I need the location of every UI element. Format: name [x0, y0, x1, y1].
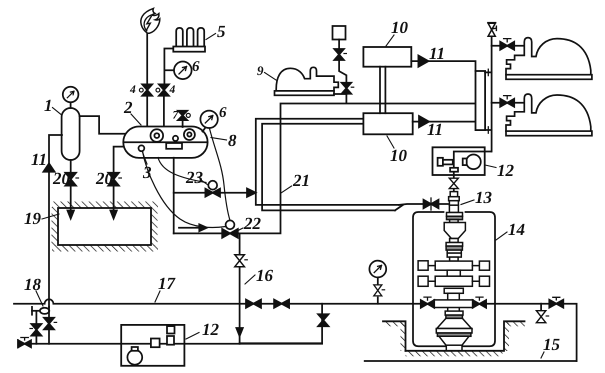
- separator float 3: [139, 145, 145, 151]
- gauge on line 17: [377, 298, 379, 304]
- svg-text:23: 23: [185, 168, 204, 187]
- svg-text:21: 21: [292, 171, 310, 190]
- label 3 + leader: [143, 152, 148, 165]
- wire flare riser: [146, 33, 148, 128]
- wellhead side valves: [421, 300, 434, 308]
- ground right: [504, 321, 525, 351]
- valve 13 line: [399, 203, 448, 206]
- separator port big 2: [184, 129, 195, 140]
- burner 5: [176, 28, 183, 47]
- boxes 10: [363, 47, 411, 67]
- valve 20b: [108, 173, 119, 186]
- pump unit 12 left: [121, 325, 184, 366]
- control curve C: [210, 129, 231, 221]
- line 15: [365, 360, 577, 362]
- arrow 11 top: [411, 61, 475, 71]
- svg-text:5: 5: [217, 22, 226, 41]
- svg-text:20: 20: [95, 169, 114, 188]
- enclosure 14: [413, 212, 495, 346]
- wire oval drop x=49: [48, 307, 50, 344]
- svg-text:11: 11: [427, 120, 443, 139]
- ground hatching left: [383, 321, 406, 351]
- svg-text:11: 11: [31, 150, 47, 169]
- wire valve23 run: [174, 192, 247, 194]
- svg-text:15: 15: [543, 335, 561, 354]
- valve 22: [226, 220, 235, 229]
- svg-text:14: 14: [508, 220, 525, 239]
- discharge line right: [485, 304, 577, 361]
- svg-text:11: 11: [429, 44, 445, 63]
- tank 19: [58, 208, 151, 245]
- svg-text:8: 8: [228, 131, 237, 150]
- truck feed valve top: [492, 45, 525, 47]
- valve 18b: [44, 318, 54, 330]
- svg-text:19: 19: [24, 209, 42, 228]
- svg-text:6: 6: [219, 105, 227, 121]
- truck right top: [506, 38, 592, 80]
- bottom line left: [31, 343, 322, 345]
- cellar floor: [406, 350, 503, 352]
- valve 4 left: [142, 84, 152, 95]
- wire vessel1 left drop (line 11): [49, 135, 62, 308]
- svg-text:10: 10: [391, 18, 409, 37]
- svg-text:9: 9: [257, 63, 264, 78]
- svg-text:17: 17: [158, 274, 177, 293]
- svg-text:13: 13: [475, 188, 493, 207]
- hanging open valve: [540, 304, 542, 310]
- gauge 6a: [174, 62, 192, 80]
- svg-text:18: 18: [24, 275, 42, 294]
- wire left drop x=36.4: [35, 311, 37, 344]
- gauge on vessel 1: [70, 102, 72, 108]
- valve 18a: [31, 324, 41, 336]
- wire line to burner 5 and gauge: [164, 49, 174, 129]
- wire unit12 down: [453, 175, 455, 196]
- manifold: [491, 23, 493, 152]
- tank 19 hatch: [52, 202, 158, 208]
- valve 4 right: [159, 84, 169, 95]
- branch x=322 with valve: [240, 304, 323, 344]
- wire vessel2 left bottom to valve 20b: [114, 147, 127, 218]
- valve 7 on vessel2: [182, 120, 184, 128]
- valve t1: [334, 49, 344, 60]
- loop 21 double line: [256, 119, 399, 205]
- svg-text:3: 3: [142, 163, 152, 182]
- truck 9: [276, 67, 338, 91]
- svg-text:12: 12: [202, 320, 220, 339]
- svg-text:4: 4: [129, 84, 136, 96]
- control curve B: [143, 152, 226, 228]
- separator small circle mid: [173, 136, 178, 141]
- gauge 6b on vessel2: [203, 128, 206, 132]
- valve 17b: [274, 300, 289, 308]
- wire vessel2 bottom drop: [173, 158, 175, 234]
- header: [476, 71, 486, 130]
- valve 20a: [65, 173, 76, 186]
- small tank above truck9: [333, 26, 346, 40]
- manifold top valve: [488, 23, 495, 36]
- svg-text:10: 10: [390, 146, 408, 165]
- cross arm 2: [435, 276, 472, 286]
- arrow 11 left: [43, 164, 54, 172]
- svg-text:6: 6: [192, 59, 200, 75]
- unit 12 right: [433, 147, 485, 175]
- valve 23: [208, 181, 217, 190]
- svg-text:20: 20: [52, 169, 71, 188]
- end valve bottom-left: [18, 340, 31, 347]
- valve t2: [342, 83, 352, 94]
- wire drain x=239.6: [239, 233, 241, 343]
- svg-text:16: 16: [256, 266, 274, 285]
- oval 18 assembly: [32, 310, 40, 312]
- valve on discharge: [549, 300, 563, 308]
- arrow down on drain: [236, 328, 242, 336]
- wire bottom run to corner: [174, 104, 476, 234]
- cross arm 1: [435, 261, 472, 270]
- truck feed valve bottom: [492, 102, 525, 104]
- vessel 2 separator: [123, 127, 207, 158]
- vessel 1: [62, 108, 80, 160]
- flowline 17: [14, 299, 422, 303]
- separator bottom box: [166, 143, 182, 149]
- lower cross: [448, 293, 460, 311]
- svg-text:12: 12: [497, 161, 515, 180]
- separator port big 1: [151, 129, 164, 142]
- lower flanges: [445, 311, 463, 315]
- wire vessel1 right to vessel2: [80, 116, 127, 134]
- wellhead stack: [418, 192, 489, 351]
- svg-text:1: 1: [44, 96, 53, 115]
- valve 17a: [246, 300, 261, 308]
- svg-text:22: 22: [243, 214, 262, 233]
- open valve below unit 12: [449, 178, 458, 188]
- arrows into tank 19: [71, 208, 114, 211]
- control curve A: [158, 158, 206, 183]
- arrow into loop: [247, 189, 256, 197]
- arrow 11 bottom: [413, 121, 476, 123]
- valve 16: [235, 255, 245, 267]
- svg-text:4: 4: [169, 84, 176, 96]
- wire vessel1 bottom to valve 20a: [70, 160, 72, 218]
- flare flame: [141, 8, 160, 33]
- flow arrow near 22: [179, 224, 207, 231]
